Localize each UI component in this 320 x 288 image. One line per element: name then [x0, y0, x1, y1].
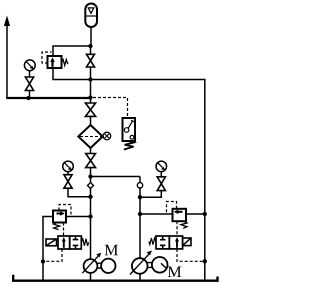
gauge PG2	[63, 161, 74, 172]
DV1 solenoid	[46, 239, 57, 246]
relief valve RV3 body	[173, 209, 187, 221]
node right pump line tee	[88, 174, 92, 178]
node drain tee on tank line	[41, 259, 45, 263]
relief valve RV2 spring	[54, 223, 60, 230]
label M motor2	[168, 267, 181, 277]
DV1 left position arrow	[63, 240, 65, 248]
wire to left branch gauge	[68, 188, 91, 197]
relief valve RV1 body	[48, 56, 62, 68]
wire gauge riser	[29, 71, 31, 98]
orifice check (small circle) on right pump line	[137, 183, 142, 188]
DV2 solenoid	[183, 238, 191, 246]
DV2 spring	[149, 238, 156, 245]
pump P1 variable arrow	[82, 255, 99, 273]
pump P1 circle	[84, 259, 98, 273]
DV2 drain dashed to right tank line	[177, 249, 203, 261]
wire relief RV3 outlet	[186, 213, 205, 215]
wire to right branch gauge	[140, 191, 161, 198]
node drain tee on right line	[203, 259, 207, 263]
relief valve RV2 body	[53, 211, 66, 223]
shaft P2-M2	[147, 263, 152, 268]
node right relief inlet tee	[138, 212, 142, 216]
relief valve RV3 pilot dashed	[167, 202, 177, 214]
node gauge tee on system line	[26, 96, 30, 100]
relief valve RV3 vent dashed	[176, 221, 178, 236]
node main junction	[88, 95, 92, 99]
wire main horizontal system line	[6, 97, 90, 99]
DV2 right position arrow	[176, 240, 178, 248]
filter F1	[78, 125, 102, 148]
gauge PG3	[156, 161, 167, 172]
valve V4 (gauge isolation left)	[25, 77, 33, 91]
wire long line to right branch	[91, 80, 205, 282]
relief valve RV2 pilot dashed	[59, 205, 71, 216]
relief valve RV1 spring	[62, 60, 68, 66]
pump P2 circle	[132, 258, 148, 274]
relief valve RV1 arrow	[51, 60, 53, 67]
node left gauge tee	[88, 195, 92, 199]
wire relief RV2 inlet	[66, 216, 91, 218]
valve V2 (main line mid)	[85, 103, 95, 116]
wire right pump riser	[139, 177, 141, 282]
clogging indicator on filter	[103, 132, 111, 140]
wire left riser to system	[6, 22, 8, 98]
wire tee to right pump line	[91, 176, 141, 178]
wire relief loop top	[53, 46, 91, 56]
solenoid valve DV2 body	[156, 236, 169, 249]
arrow flow direction	[4, 16, 10, 27]
leader line to motor2 label	[161, 263, 167, 268]
relief valve RV2 arrow	[57, 213, 64, 215]
valve V3 (main line lower)	[86, 154, 96, 168]
wire dashed pilot to pressure switch	[93, 98, 128, 119]
relief valve RV3 spring	[181, 221, 187, 228]
valve V6 (right branch gauge isolation)	[157, 177, 165, 191]
pump P2 variable arrow	[130, 254, 150, 275]
relief valve RV1 pilot dashed	[42, 52, 52, 63]
node right gauge tee	[138, 195, 142, 199]
valve V5 (left branch gauge isolation)	[64, 175, 72, 189]
motor M2 circle	[152, 257, 168, 273]
pressure switch PS1 contact	[124, 128, 129, 133]
gauge PG1	[24, 60, 35, 71]
wire relief loop bottom	[53, 68, 91, 80]
wire relief RV3 inlet	[140, 213, 173, 215]
wire main vertical pump line P1	[90, 27, 93, 281]
node relief RV3 outlet on right line	[203, 212, 207, 216]
relief valve RV3 arrow	[176, 211, 183, 213]
node left relief tee	[88, 214, 92, 218]
node accumulator tee	[88, 44, 92, 48]
pressure switch PS1 spring	[124, 141, 134, 149]
solenoid valve DV1 body	[58, 236, 70, 249]
DV2 left position blocked ports	[160, 236, 165, 249]
tank reservoir	[13, 275, 217, 281]
wire gauge stem	[67, 172, 69, 175]
wire relief RV2 outlet to tank line	[43, 217, 53, 282]
node relief loop bottom tee	[88, 77, 92, 81]
DV1 spring	[81, 239, 88, 246]
wire right gauge stem	[160, 172, 162, 177]
DV1 drain dashed to tank	[45, 249, 62, 261]
motor M1 circle	[101, 259, 115, 273]
DV1 right position blocked ports	[73, 236, 79, 249]
pressure switch PS1 body	[123, 118, 136, 141]
orifice check (small diamond) on pump line	[88, 183, 94, 189]
shaft P1-M1	[97, 263, 101, 268]
valve V1 (shut-off, main line top)	[87, 54, 95, 67]
label M motor1	[105, 245, 118, 255]
accumulator A1	[85, 4, 97, 28]
relief valve RV2 vent dashed	[63, 223, 65, 237]
